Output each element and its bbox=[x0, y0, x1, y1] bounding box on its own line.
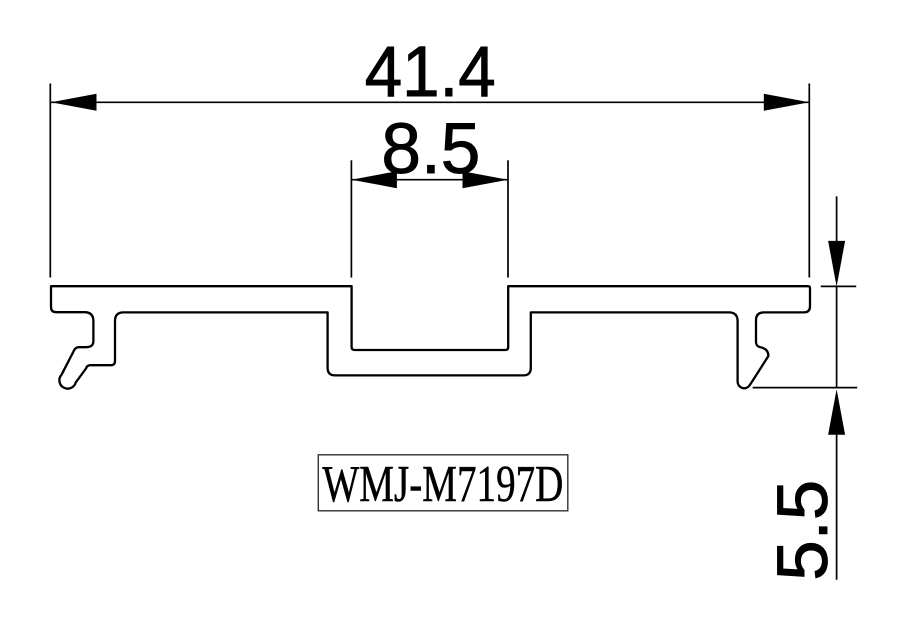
dim 8.5 arrow right bbox=[463, 171, 509, 188]
part label box bbox=[318, 455, 568, 511]
svg-text:8.5: 8.5 bbox=[381, 110, 480, 189]
dim 5.5 lower leader line bbox=[836, 432, 838, 580]
svg-text:41.4: 41.4 bbox=[365, 33, 496, 112]
dim 8.5 arrow left bbox=[351, 171, 397, 188]
profile outline bbox=[51, 286, 810, 388]
dim 8.5 extension line left bbox=[350, 160, 352, 277]
dim 5.5 lower arrow (up) bbox=[828, 389, 845, 435]
dim 8.5 extension line right bbox=[507, 160, 509, 277]
dim 5.5 lower tick bbox=[753, 387, 858, 389]
dim 41.4 dimension line bbox=[51, 101, 809, 103]
dim 5.5 upper leader line bbox=[836, 196, 838, 244]
dim 5.5 upper arrow (down) bbox=[828, 241, 845, 287]
dim 5.5 mid line bbox=[836, 286, 838, 388]
svg-text:5.5: 5.5 bbox=[764, 480, 843, 581]
svg-text:WMJ-M7197D: WMJ-M7197D bbox=[322, 456, 563, 513]
dim 41.4 arrow right bbox=[764, 94, 810, 111]
dim 41.4 extension line right bbox=[808, 84, 810, 278]
dim 41.4 extension line left bbox=[49, 84, 51, 278]
dim 5.5 upper tick bbox=[821, 285, 856, 287]
dim 8.5 dimension line bbox=[351, 179, 508, 181]
dim 41.4 arrow left bbox=[51, 94, 97, 111]
